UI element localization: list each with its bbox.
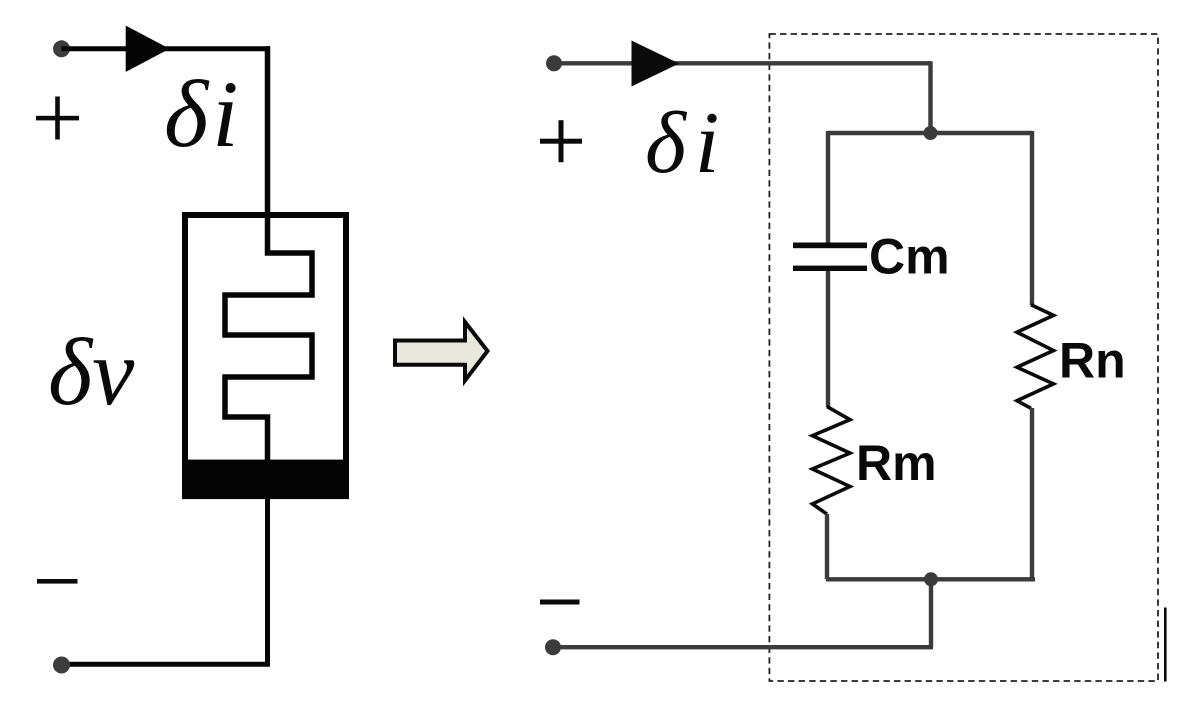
svg-text:δi: δi	[645, 95, 719, 192]
node + terminal (right)	[546, 55, 562, 71]
capacitor Cm	[793, 243, 867, 272]
memristor M1 body	[185, 215, 346, 496]
implication arrow	[395, 322, 488, 381]
tick mark (right edge)	[1164, 608, 1167, 682]
node + terminal (left)	[53, 40, 70, 57]
wire	[62, 662, 271, 667]
svg-text:Cm: Cm	[869, 229, 950, 285]
wire top rail	[828, 131, 1032, 135]
minus sign (left)	[37, 579, 78, 584]
plus sign (right)	[540, 120, 582, 162]
memristor polarity bar	[182, 460, 349, 500]
wire	[929, 579, 933, 647]
resistor Rm	[812, 407, 850, 514]
svg-text:δv: δv	[48, 319, 135, 425]
junction node (top)	[924, 126, 938, 140]
svg-text:δi: δi	[164, 61, 239, 167]
current arrow (right)	[632, 41, 680, 87]
equivalent-circuit boundary (dashed box)	[769, 34, 1158, 681]
wire	[826, 131, 830, 243]
wire	[265, 499, 270, 664]
wire	[826, 271, 830, 407]
node - terminal (right)	[545, 639, 561, 655]
node - terminal (left)	[53, 657, 70, 674]
plus sign (left)	[36, 97, 79, 140]
wire	[1030, 408, 1034, 581]
svg-text:Rm: Rm	[856, 435, 937, 491]
svg-text:Rn: Rn	[1059, 333, 1126, 389]
wire	[265, 46, 271, 215]
wire bottom rail	[826, 577, 1035, 581]
wire	[62, 46, 271, 51]
minus sign (right)	[540, 600, 580, 605]
wire	[554, 645, 933, 649]
wire	[554, 61, 931, 65]
current arrow (left)	[126, 26, 170, 72]
wire	[1030, 131, 1034, 305]
memristor meander	[225, 215, 312, 460]
wire	[928, 61, 932, 133]
junction node (bottom)	[924, 572, 938, 586]
resistor Rn	[1017, 305, 1054, 409]
wire	[825, 514, 829, 579]
